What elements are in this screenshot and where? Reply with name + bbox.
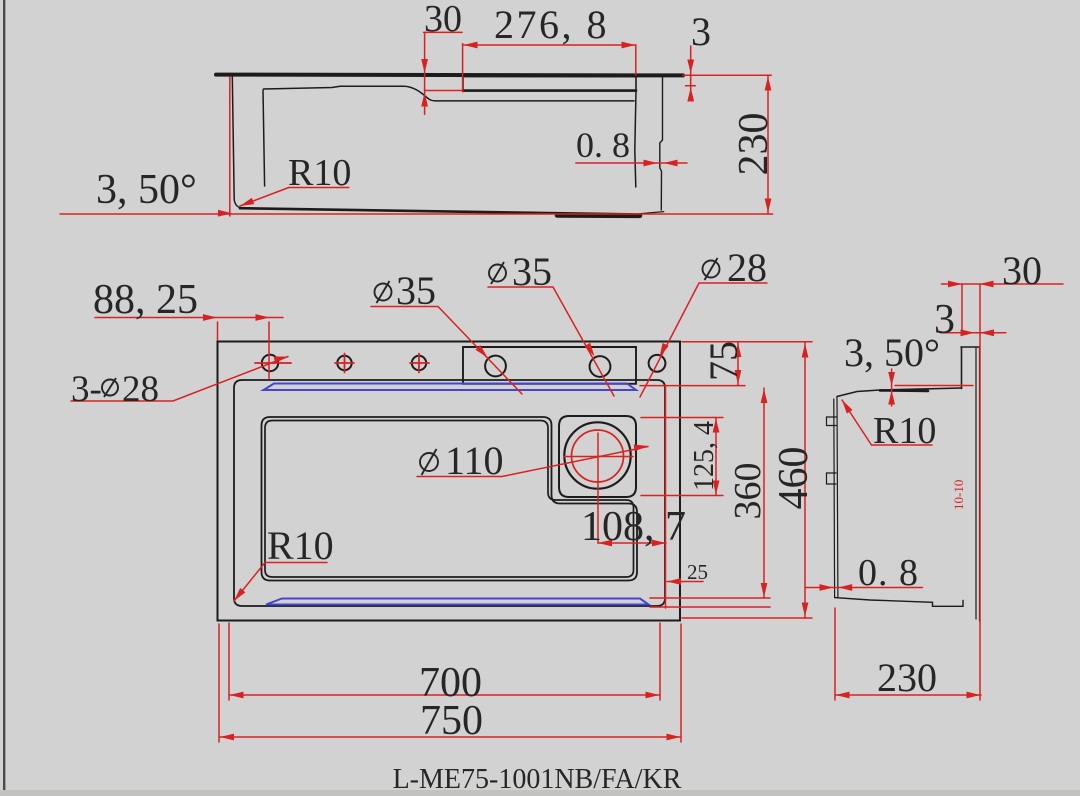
R10 side leader arrow xyxy=(842,400,872,445)
plan right inner extension vertical xyxy=(665,386,667,609)
plan view rim inner rounded rectangle xyxy=(234,380,665,606)
dim 3 side line xyxy=(941,332,1006,334)
svg-text:R10: R10 xyxy=(873,410,936,452)
plan view hole 3 xyxy=(412,356,426,370)
extension y598 xyxy=(650,597,770,599)
R10 front underline xyxy=(289,187,349,189)
side view top rim line xyxy=(837,388,962,397)
svg-text:230: 230 xyxy=(877,655,937,700)
scan edge left xyxy=(3,0,5,796)
dim 30 front right vertical xyxy=(462,44,464,92)
label D28 right xyxy=(703,258,720,280)
R10 plan underline xyxy=(265,562,327,564)
dim 30 front vertical line xyxy=(424,32,426,114)
svg-text:108, 7: 108, 7 xyxy=(581,504,686,550)
svg-text:0. 8: 0. 8 xyxy=(858,552,919,594)
front view outer right wall xyxy=(660,77,663,210)
plan view bowl outer contour xyxy=(262,417,638,581)
side view rim heavy overlay xyxy=(880,389,928,392)
svg-text:30: 30 xyxy=(424,0,462,40)
plan view blue strip top xyxy=(264,384,637,391)
R10 plan leader arrow xyxy=(234,563,265,602)
dim 700 line with arrows xyxy=(229,694,660,696)
D110 crosshair xyxy=(564,433,633,543)
dim 3,50 side horizontal extension xyxy=(895,385,973,387)
svg-text:110: 110 xyxy=(445,438,504,483)
dim 230 front top extension xyxy=(683,74,771,76)
dim 88,25 left extension xyxy=(217,322,219,340)
scan edge bottom xyxy=(0,790,1080,796)
D35 leader a xyxy=(371,307,522,395)
D28 leader xyxy=(640,283,767,397)
svg-text:35: 35 xyxy=(512,249,552,294)
plan view hole 6 D28 xyxy=(649,355,666,372)
side view mounting tab 1 xyxy=(827,417,837,426)
side view back ledge top xyxy=(961,346,980,348)
side view back wall line A xyxy=(975,348,977,619)
svg-text:28: 28 xyxy=(727,245,767,290)
D35 leader b xyxy=(488,287,614,396)
dim 30 front arrows xyxy=(421,59,428,73)
dim 30 front lower horizontal xyxy=(425,90,463,92)
plan view hole 5 D35 xyxy=(590,356,611,377)
plan view hole 4 D35 xyxy=(485,356,506,377)
svg-text:3, 50°: 3, 50° xyxy=(96,167,197,213)
side view left wall line B xyxy=(836,397,839,598)
dim 30 side line xyxy=(942,283,1064,285)
plan view bowl inner contour xyxy=(265,421,634,578)
plan view drain circle red inner xyxy=(572,430,624,482)
svg-text:0. 8: 0. 8 xyxy=(576,125,630,165)
dim 75 line with arrows xyxy=(737,342,739,385)
extension y495 xyxy=(641,495,723,497)
hole2 crosshair xyxy=(335,354,354,373)
dim 125,4 line with arrows xyxy=(715,418,717,496)
dim 3,50 front line with arrow (continuous bottom red line) xyxy=(60,213,773,215)
extension y417 xyxy=(641,417,723,419)
svg-text:10-10: 10-10 xyxy=(951,480,966,510)
hole1 crosshair horizontal xyxy=(255,362,291,364)
svg-text:3: 3 xyxy=(691,9,711,54)
svg-text:75: 75 xyxy=(701,341,746,381)
dim 460 line with arrows xyxy=(804,342,806,618)
dim 3 front vertical xyxy=(690,46,692,101)
svg-text:125, 4: 125, 4 xyxy=(689,421,720,491)
svg-text:360: 360 xyxy=(727,463,769,520)
svg-text:88, 25: 88, 25 xyxy=(93,277,198,323)
dim 750 line with arrows xyxy=(220,736,682,738)
svg-text:R10: R10 xyxy=(267,523,334,568)
plan view hole 1 D28 xyxy=(262,355,278,371)
svg-text:L-ME75-1001NB/FA/KR: L-ME75-1001NB/FA/KR xyxy=(393,764,682,795)
label D35 a xyxy=(375,281,392,303)
front view faucet deck bottom heavy edge xyxy=(463,89,636,92)
plan view hole 2 xyxy=(337,356,351,370)
plan view faucet deck rectangle xyxy=(463,347,636,384)
dim 0,8 side line with arrows xyxy=(806,587,923,589)
side view left wall line A xyxy=(833,399,836,597)
extension y618 xyxy=(682,617,812,619)
front view inner right wall xyxy=(635,91,636,187)
dim 276,8 line with arrows xyxy=(463,44,636,46)
svg-text:3, 50°: 3, 50° xyxy=(844,330,940,375)
front view counter top line xyxy=(216,73,683,78)
plan view outer rectangle xyxy=(218,342,681,621)
dim 276,8 right extension xyxy=(635,46,637,75)
label D35 b xyxy=(489,262,506,284)
hole3 crosshair xyxy=(410,354,429,373)
svg-text:750: 750 xyxy=(420,698,483,744)
dim 88,25 line with arrows xyxy=(95,317,283,319)
svg-text:30: 30 xyxy=(1002,248,1042,293)
label D110 xyxy=(420,449,438,475)
dim 108,7 line with arrows xyxy=(598,542,666,544)
D110 leader xyxy=(417,447,648,477)
front left red extension vertical xyxy=(229,77,231,216)
dim 0,8 front line with arrows xyxy=(576,162,687,164)
side view bottom line xyxy=(835,598,963,607)
svg-text:3-: 3- xyxy=(71,369,102,410)
extension y382 xyxy=(640,385,745,387)
dim 3 front arrows xyxy=(687,60,694,74)
extension y343 xyxy=(682,341,812,343)
svg-text:276, 8: 276, 8 xyxy=(494,2,609,47)
svg-text:230: 230 xyxy=(731,113,777,176)
plan view blue strip bottom xyxy=(266,599,649,605)
front view bottom right thin line xyxy=(638,212,664,214)
dim 700 extensions xyxy=(229,623,660,700)
dim 750 extensions xyxy=(219,624,681,742)
dim 3 front tick low xyxy=(686,85,696,87)
svg-text:R10: R10 xyxy=(288,152,351,194)
dim 30 front underline xyxy=(424,31,462,33)
front view bottom line xyxy=(240,208,638,214)
svg-text:35: 35 xyxy=(396,268,436,313)
svg-text:28: 28 xyxy=(122,369,159,410)
side view mounting tab 2 xyxy=(827,473,837,484)
3-D28 leader arrow xyxy=(71,357,288,402)
dim 230 bottom extensions xyxy=(834,608,836,700)
hole1 crosshair vertical / 88,25 right extension xyxy=(268,322,270,379)
dim 230 front vertical with arrows xyxy=(767,75,769,214)
plan view drain circle D110 xyxy=(564,422,630,488)
svg-text:460: 460 xyxy=(771,447,817,510)
dim 25 line with arrow xyxy=(667,581,703,583)
front view faucet deck rectangle xyxy=(463,77,636,91)
front view inner left wall xyxy=(263,90,265,186)
dim 360 line with arrows xyxy=(763,388,765,598)
side view back step vertical xyxy=(961,348,963,389)
front view left outer wall xyxy=(232,77,241,208)
dim 3,50 side arrows vertical xyxy=(891,369,893,406)
side view back wall line B xyxy=(979,348,981,622)
R10 front leader arrow xyxy=(240,188,289,207)
extension y607 xyxy=(650,606,770,608)
R10 side underline xyxy=(872,444,933,446)
front view bottom drain boss thick bar xyxy=(557,213,640,218)
dim 230 bottom line with arrows xyxy=(835,694,981,696)
dim 30 side extensions xyxy=(962,284,980,700)
front view rim profile line xyxy=(264,86,635,101)
plan view small bowl square xyxy=(559,416,636,497)
svg-text:25: 25 xyxy=(687,560,708,584)
